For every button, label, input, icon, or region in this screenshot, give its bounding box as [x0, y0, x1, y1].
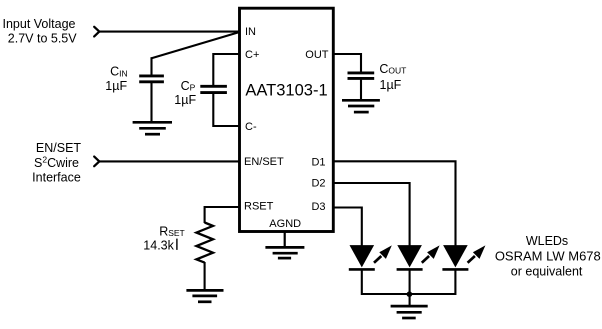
- wire COUT bottom: [360, 80, 362, 99]
- LED on D2 (middle WLED): [397, 245, 440, 269]
- svg-text:C-: C-: [245, 121, 257, 133]
- wire cathode rail: [362, 293, 456, 295]
- junction dot on rail: [407, 291, 413, 297]
- svg-text:Interface: Interface: [32, 171, 81, 185]
- wire D1 to LED3: [334, 161, 456, 245]
- wire D2 to LED2: [334, 183, 410, 246]
- ground for AGND: [265, 247, 304, 258]
- LED on D3 (left WLED): [349, 245, 392, 269]
- LED on D1 (right WLED): [442, 245, 485, 269]
- svg-text:1µF: 1µF: [174, 93, 196, 107]
- capacitor CP value label: [174, 79, 196, 107]
- ground for LEDs: [391, 306, 428, 318]
- wire IN pin to CIN (diagonal): [152, 32, 241, 58]
- wire CIN bottom: [150, 83, 152, 121]
- wire EN/SET to IC: [99, 160, 241, 162]
- svg-text:Input Voltage: Input Voltage: [3, 17, 76, 31]
- wire RSET pin: [205, 207, 240, 223]
- svg-text:1µF: 1µF: [105, 79, 127, 93]
- ground for CIN: [133, 122, 172, 134]
- input arrow: [94, 27, 99, 37]
- ground for RSET: [186, 290, 223, 301]
- svg-text:14.3k: 14.3k: [143, 239, 174, 253]
- svg-text:D3: D3: [311, 201, 325, 213]
- wire RSET bottom: [204, 262, 206, 289]
- resistor RSET value label: [143, 224, 184, 252]
- node WLEDs annotation: [495, 234, 601, 279]
- svg-text:AGND: AGND: [269, 218, 301, 230]
- svg-text:WLEDs: WLEDs: [526, 234, 568, 248]
- capacitor COUT: [348, 73, 375, 79]
- wire D3 to LED1: [334, 208, 362, 246]
- wire C+ pin: [213, 54, 240, 85]
- svg-text:IN: IN: [245, 26, 256, 38]
- wire CIN top: [150, 57, 152, 74]
- wire LED2 cathode down: [409, 269, 411, 295]
- svg-text:OUT: OUT: [305, 49, 329, 61]
- svg-text:D1: D1: [311, 157, 325, 169]
- EN/SET arrow: [94, 157, 99, 167]
- svg-text:2.7V to 5.5V: 2.7V to 5.5V: [8, 31, 77, 45]
- ground for COUT: [342, 100, 380, 112]
- wire C- pin: [213, 94, 240, 126]
- wire ground stub for LEDs: [409, 294, 411, 305]
- svg-text:S2Cwire: S2Cwire: [34, 154, 79, 170]
- svg-text:EN/SET: EN/SET: [244, 156, 284, 168]
- svg-text:C+: C+: [245, 49, 259, 61]
- capacitor CIN: [139, 76, 164, 82]
- wire input to IN pin: [99, 31, 241, 33]
- wire OUT pin: [334, 54, 362, 72]
- capacitor CP: [200, 86, 227, 92]
- wire LED1 cathode down: [361, 269, 363, 295]
- svg-text:or equivalent: or equivalent: [511, 265, 583, 279]
- svg-text:RSET: RSET: [244, 201, 274, 213]
- node EN/SET interface label: [32, 141, 81, 184]
- wire LED3 cathode down: [454, 269, 456, 295]
- svg-text:EN/SET: EN/SET: [36, 141, 82, 155]
- IC U1 AAT3103-1 body: [240, 8, 334, 231]
- resistor RSET: [196, 223, 213, 263]
- wire AGND stub: [284, 232, 286, 247]
- svg-text:OSRAM LW M678: OSRAM LW M678: [495, 248, 601, 263]
- capacitor CIN value label: [105, 65, 127, 93]
- svg-text:1µF: 1µF: [380, 78, 402, 92]
- svg-text:AAT3103-1: AAT3103-1: [245, 82, 327, 100]
- capacitor COUT value label: [379, 62, 406, 92]
- svg-text:D2: D2: [311, 178, 325, 190]
